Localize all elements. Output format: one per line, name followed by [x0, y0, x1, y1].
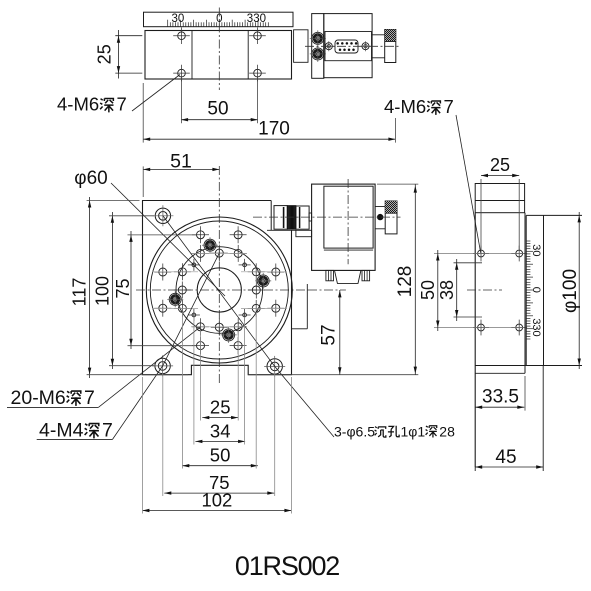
svg-text:33.5: 33.5 — [482, 387, 519, 408]
svg-text:45: 45 — [495, 447, 516, 468]
svg-text:4-M6: 4-M6 — [57, 94, 99, 115]
svg-text:7: 7 — [84, 387, 95, 409]
svg-text:7: 7 — [102, 420, 113, 442]
svg-text:50: 50 — [207, 99, 228, 120]
svg-text:100: 100 — [93, 276, 113, 306]
svg-text:57: 57 — [319, 324, 340, 345]
svg-text:20-M6: 20-M6 — [11, 387, 66, 409]
svg-text:50: 50 — [418, 280, 438, 300]
svg-text:117: 117 — [70, 278, 90, 307]
svg-text:51: 51 — [170, 151, 192, 173]
svg-text:38: 38 — [437, 280, 457, 300]
svg-text:128: 128 — [395, 266, 416, 298]
svg-text:4-M4: 4-M4 — [39, 420, 84, 442]
svg-text:30: 30 — [172, 13, 185, 25]
svg-text:φ100: φ100 — [560, 269, 581, 313]
svg-text:25: 25 — [95, 44, 115, 64]
svg-text:4-M6: 4-M6 — [384, 96, 426, 117]
svg-text:102: 102 — [201, 490, 232, 511]
svg-text:34: 34 — [210, 420, 231, 441]
svg-text:1φ1: 1φ1 — [401, 424, 426, 440]
svg-text:φ60: φ60 — [74, 168, 107, 189]
svg-text:25: 25 — [210, 397, 231, 418]
svg-text:25: 25 — [490, 155, 510, 175]
svg-text:330: 330 — [247, 13, 266, 25]
svg-text:30: 30 — [530, 244, 542, 256]
svg-text:01RS002: 01RS002 — [235, 551, 339, 581]
svg-text:50: 50 — [210, 445, 231, 466]
svg-text:7: 7 — [117, 94, 127, 115]
svg-text:75: 75 — [113, 278, 133, 298]
svg-text:330: 330 — [530, 318, 542, 336]
svg-text:0: 0 — [530, 287, 542, 293]
svg-text:7: 7 — [444, 96, 454, 117]
svg-text:28: 28 — [439, 424, 455, 440]
svg-text:170: 170 — [258, 119, 290, 140]
svg-text:3-φ6.5: 3-φ6.5 — [334, 424, 375, 440]
